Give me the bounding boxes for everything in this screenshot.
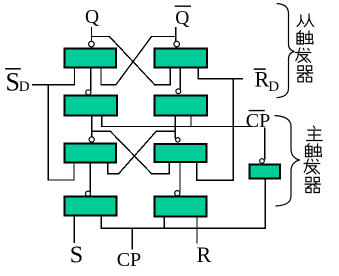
svg-text:Q: Q bbox=[175, 8, 189, 29]
svg-text:CP: CP bbox=[117, 249, 141, 271]
svg-text:Q: Q bbox=[85, 7, 99, 28]
svg-text:R: R bbox=[255, 67, 270, 92]
svg-text:D: D bbox=[268, 79, 279, 95]
svg-text:D: D bbox=[19, 79, 30, 95]
svg-text:CP: CP bbox=[246, 110, 270, 132]
svg-text:R: R bbox=[197, 242, 212, 267]
svg-text:S: S bbox=[70, 243, 83, 269]
svg-text:S: S bbox=[6, 67, 20, 96]
